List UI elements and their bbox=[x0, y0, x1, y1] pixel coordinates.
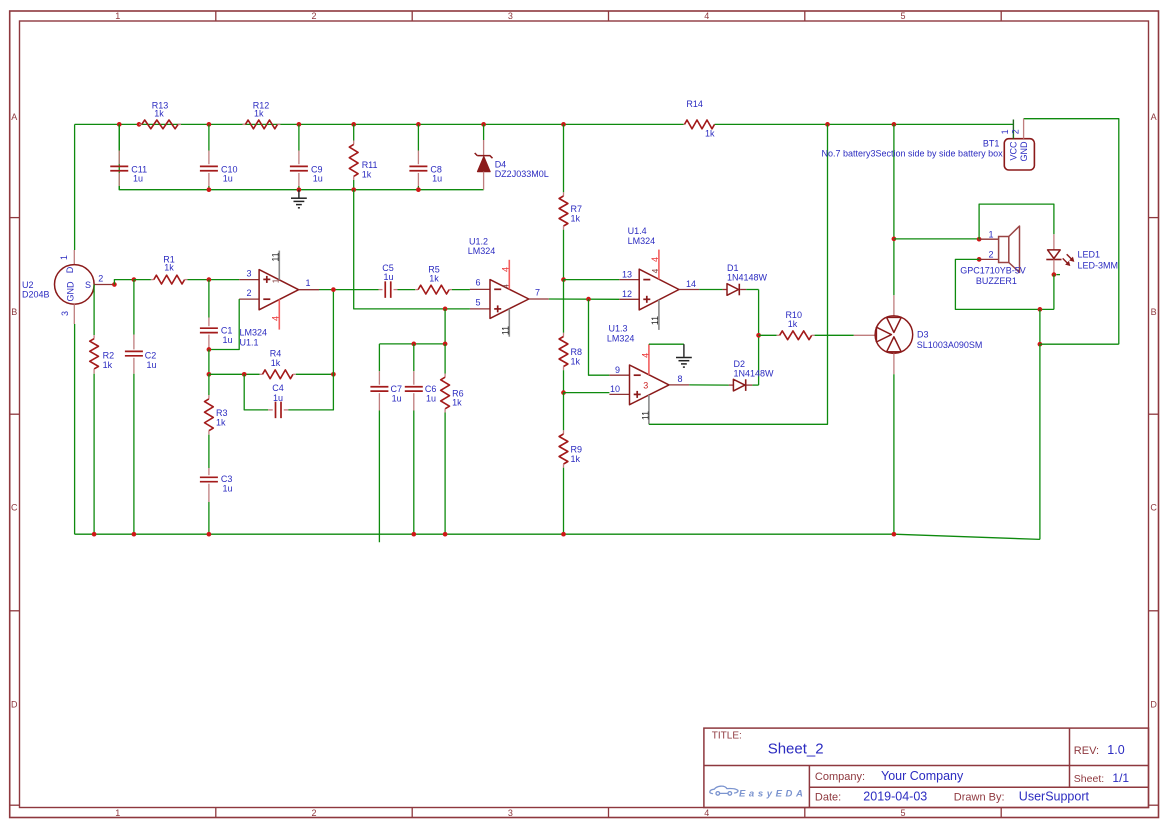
svg-text:LED-3MM: LED-3MM bbox=[1078, 260, 1119, 270]
svg-text:R8: R8 bbox=[571, 347, 583, 357]
svg-text:R2: R2 bbox=[103, 351, 115, 361]
capacitor C1 bbox=[208, 318, 210, 327]
resistor R10 bbox=[759, 334, 777, 336]
svg-text:13: 13 bbox=[622, 269, 632, 279]
svg-text:No.7 battery3Section side by s: No.7 battery3Section side by side batter… bbox=[821, 149, 1003, 159]
svg-text:D1: D1 bbox=[727, 263, 739, 273]
svg-text:6: 6 bbox=[475, 278, 480, 288]
ground symbol near U1.3 bbox=[683, 344, 685, 357]
LED LED1 LED-3MM bbox=[1053, 234, 1055, 250]
svg-text:BT1: BT1 bbox=[983, 139, 1000, 149]
wire C5 to R5 bbox=[398, 289, 416, 291]
wire R6 to bottom rail bbox=[444, 413, 446, 535]
svg-text:2: 2 bbox=[311, 808, 316, 818]
svg-text:2: 2 bbox=[311, 11, 316, 21]
svg-text:11: 11 bbox=[650, 316, 660, 325]
svg-text:1N4148W: 1N4148W bbox=[727, 273, 768, 283]
svg-text:5: 5 bbox=[475, 297, 480, 307]
capacitor C10 bbox=[208, 124, 210, 150]
wire R10 to D3 bbox=[815, 334, 854, 336]
wire D1 to common node column bbox=[746, 289, 758, 291]
svg-text:C4: C4 bbox=[272, 383, 284, 393]
power pin 11 of U1.3 bbox=[648, 395, 650, 424]
diode D2 1N4148W bbox=[729, 384, 734, 386]
node junction return column top bbox=[1038, 307, 1043, 312]
LED light arrows bbox=[1067, 254, 1073, 260]
resistor R12 bbox=[243, 123, 246, 125]
svg-text:1: 1 bbox=[272, 278, 281, 283]
svg-text:C: C bbox=[11, 503, 18, 513]
top border column ticks bbox=[215, 11, 217, 21]
wire R1 to op-amp U1.1 pin 3 bbox=[188, 279, 240, 281]
node junction C1 bottom bbox=[207, 347, 212, 352]
wire buzzer pin1 loop top bbox=[979, 204, 1054, 239]
node junction C4 branch bbox=[242, 372, 247, 377]
svg-text:LED1: LED1 bbox=[1078, 249, 1101, 259]
wire top VCC rail left segment bbox=[75, 123, 684, 125]
diode D1 1N4148W bbox=[723, 289, 727, 291]
svg-text:GND: GND bbox=[1019, 141, 1029, 162]
left border row ticks bbox=[10, 217, 20, 219]
op-amp U1.2 LM324 bbox=[470, 288, 490, 290]
svg-text:TITLE:: TITLE: bbox=[712, 731, 742, 742]
capacitor C3 bbox=[208, 468, 210, 475]
wire R8 to pin10 node bbox=[563, 370, 565, 392]
node junction dots on sub rail bbox=[207, 187, 212, 192]
svg-text:1k: 1k bbox=[705, 129, 715, 139]
svg-text:1u: 1u bbox=[273, 393, 283, 403]
EasyEDA logo bbox=[710, 786, 738, 795]
svg-text:C6: C6 bbox=[425, 384, 437, 394]
wire pin10 row bbox=[564, 392, 610, 394]
node junction LED cathode bbox=[1052, 272, 1057, 277]
wire mic pin2 jog to R1 row bbox=[114, 280, 133, 285]
svg-text:1k: 1k bbox=[164, 263, 174, 273]
title block dividers bbox=[704, 765, 1149, 767]
svg-text:SL1003A090SM: SL1003A090SM bbox=[917, 340, 983, 350]
node junction R4 right bbox=[331, 372, 336, 377]
svg-text:12: 12 bbox=[622, 289, 632, 299]
svg-text:Date:: Date: bbox=[815, 792, 841, 804]
wire U1.3 pin4 to ground bbox=[649, 343, 684, 345]
svg-text:U1.1: U1.1 bbox=[240, 338, 259, 348]
wire C1 bottom to R4 row bbox=[208, 350, 210, 375]
node junction buzzer pin2 bbox=[977, 257, 982, 262]
svg-text:4: 4 bbox=[501, 267, 511, 272]
wire VCC rail down to D3 top bbox=[893, 124, 895, 295]
svg-text:1k: 1k bbox=[571, 357, 581, 367]
zener diode D4 bbox=[483, 124, 485, 140]
svg-text:1: 1 bbox=[59, 255, 69, 260]
wire U1.3 pin11 to right vertical bbox=[649, 124, 828, 424]
resistor R6 bbox=[444, 344, 446, 374]
svg-text:UserSupport: UserSupport bbox=[1019, 790, 1090, 804]
wire U1.1 output row bbox=[319, 289, 379, 291]
svg-text:DZ2J033M0L: DZ2J033M0L bbox=[495, 169, 549, 179]
svg-text:R9: R9 bbox=[571, 445, 583, 455]
power pin 4 of U1.3 bbox=[648, 344, 650, 375]
svg-text:11: 11 bbox=[501, 326, 511, 335]
pin 2 lead of U2 bbox=[94, 284, 114, 286]
svg-text:1: 1 bbox=[115, 11, 120, 21]
svg-text:GND: GND bbox=[66, 281, 76, 302]
wire C4 loop bbox=[244, 374, 268, 410]
svg-text:D4: D4 bbox=[495, 160, 507, 170]
wire D3 bottom to bottom rail bbox=[893, 374, 895, 534]
svg-text:4: 4 bbox=[640, 353, 650, 358]
wire C3 to bottom rail bbox=[208, 502, 210, 534]
op-amp U1.3 LM324 bbox=[609, 374, 629, 376]
resistor R13 bbox=[139, 123, 142, 125]
svg-text:R4: R4 bbox=[270, 349, 282, 359]
svg-text:Drawn By:: Drawn By: bbox=[954, 792, 1005, 804]
svg-text:Sheet:: Sheet: bbox=[1074, 773, 1104, 785]
svg-text:1k: 1k bbox=[571, 454, 581, 464]
svg-text:1/1: 1/1 bbox=[1112, 771, 1129, 785]
svg-text:3: 3 bbox=[508, 11, 513, 21]
svg-text:2019-04-03: 2019-04-03 bbox=[863, 790, 927, 804]
svg-text:VCC: VCC bbox=[1009, 141, 1019, 161]
wire R7 to pin13 node bbox=[563, 230, 565, 280]
wire branch down to U1.3 pin 9 bbox=[589, 299, 610, 375]
svg-text:1u: 1u bbox=[383, 272, 393, 282]
wire pin13 row bbox=[564, 279, 620, 281]
svg-text:1u: 1u bbox=[392, 394, 402, 404]
svg-text:1u: 1u bbox=[432, 173, 442, 183]
svg-text:EasyEDA: EasyEDA bbox=[739, 788, 806, 799]
svg-text:2: 2 bbox=[246, 288, 251, 298]
wire U1.2 output to U1.4 pin12 bbox=[549, 298, 620, 300]
svg-text:1k: 1k bbox=[452, 397, 462, 407]
svg-text:5: 5 bbox=[900, 11, 905, 21]
wire D2 to common node column bbox=[752, 384, 758, 386]
svg-text:C: C bbox=[1150, 503, 1157, 513]
pin lead into D3 left bbox=[854, 334, 875, 336]
svg-text:1k: 1k bbox=[103, 360, 113, 370]
wire R5 to U1.2 pin 6 bbox=[452, 289, 470, 291]
resistor R2 bbox=[93, 335, 95, 339]
power pin 11 of U1.1 bbox=[278, 251, 280, 280]
capacitor C7 bbox=[378, 344, 380, 371]
wire left vertical from VCC rail to mic pin 1 bbox=[74, 124, 76, 250]
node junction R1 right / C1 top bbox=[207, 277, 212, 282]
capacitor C6 bbox=[413, 344, 415, 371]
svg-text:B: B bbox=[11, 307, 17, 317]
wire from pin2 down to R2 bbox=[93, 285, 95, 336]
ground symbol under C9 bbox=[298, 190, 300, 198]
svg-text:BUZZER1: BUZZER1 bbox=[976, 276, 1017, 286]
power pin 4 of U1.1 bbox=[278, 299, 280, 329]
svg-text:Company:: Company: bbox=[815, 771, 865, 783]
wire R9 to bottom rail bbox=[563, 468, 565, 535]
svg-text:2: 2 bbox=[1010, 129, 1020, 134]
op-amp U1.4 LM324 bbox=[619, 279, 639, 281]
microphone U2 D204B bbox=[73, 250, 75, 265]
wire U1.1 pin2 feedback to C1 bottom bbox=[209, 299, 239, 349]
svg-text:S: S bbox=[85, 280, 91, 290]
svg-text:2: 2 bbox=[988, 250, 993, 260]
svg-text:LM324: LM324 bbox=[468, 246, 496, 256]
svg-text:4: 4 bbox=[704, 11, 709, 21]
node junction buzzer pin1 bbox=[977, 237, 982, 242]
capacitor C4 bbox=[268, 409, 273, 411]
wire R4 right to output column bbox=[296, 373, 334, 375]
svg-text:11: 11 bbox=[271, 252, 281, 261]
svg-text:REV:: REV: bbox=[1074, 745, 1099, 757]
right border row ticks bbox=[1149, 217, 1159, 219]
svg-text:GPC1710YB-5V: GPC1710YB-5V bbox=[960, 266, 1026, 276]
power pin 4 of U1.4 bbox=[658, 250, 660, 280]
wire C2 column bbox=[133, 280, 135, 335]
svg-text:7: 7 bbox=[535, 287, 540, 297]
svg-text:1k: 1k bbox=[271, 358, 281, 368]
node junction dots on VCC rail bbox=[117, 122, 122, 127]
svg-text:1: 1 bbox=[988, 229, 993, 239]
svg-text:1k: 1k bbox=[429, 273, 439, 283]
svg-text:D204B: D204B bbox=[22, 290, 50, 300]
wire R3 to C3 bbox=[208, 435, 210, 468]
resistor R11 bbox=[353, 124, 355, 140]
node junction R10 left bbox=[756, 333, 761, 338]
svg-text:Sheet_2: Sheet_2 bbox=[768, 741, 824, 758]
svg-text:5: 5 bbox=[900, 808, 905, 818]
power pin 4 of U1.2 bbox=[508, 260, 510, 290]
capacitor C2 bbox=[133, 335, 135, 350]
wire sub ground rail bbox=[119, 124, 483, 189]
svg-text:1u: 1u bbox=[147, 360, 157, 370]
node junction out7 branch bbox=[586, 297, 591, 302]
svg-text:4: 4 bbox=[651, 268, 660, 273]
svg-text:2: 2 bbox=[98, 273, 103, 283]
svg-text:U1.4: U1.4 bbox=[628, 226, 647, 236]
svg-text:R7: R7 bbox=[571, 204, 583, 214]
wire LED cathode down bbox=[1053, 275, 1055, 310]
capacitor C11 bbox=[118, 124, 120, 150]
svg-text:14: 14 bbox=[686, 279, 696, 289]
wire C6 R6 top branch bbox=[379, 309, 445, 344]
svg-text:1k: 1k bbox=[788, 319, 798, 329]
node junction R7/R8/pin13 bbox=[561, 277, 566, 282]
svg-text:1k: 1k bbox=[362, 170, 372, 180]
svg-text:D: D bbox=[65, 266, 75, 273]
wire bottom ground rail bbox=[75, 533, 894, 535]
wire C6 to bottom rail bbox=[413, 411, 415, 535]
svg-text:1u: 1u bbox=[426, 394, 436, 404]
svg-text:A: A bbox=[1151, 112, 1157, 122]
node junction R6 top bbox=[443, 342, 448, 347]
svg-text:LM324: LM324 bbox=[240, 328, 268, 338]
svg-text:LM324: LM324 bbox=[628, 236, 656, 246]
node junction pin5 row bbox=[443, 307, 448, 312]
svg-text:4: 4 bbox=[704, 808, 709, 818]
svg-text:1u: 1u bbox=[133, 173, 143, 183]
resistor R1 bbox=[134, 279, 151, 281]
svg-text:U1.3: U1.3 bbox=[609, 324, 628, 334]
resistor R5 bbox=[415, 289, 418, 291]
svg-text:1.0: 1.0 bbox=[1107, 743, 1124, 757]
wire BT1 pin2 net to right vertical bbox=[1024, 119, 1119, 345]
node junction dots on bottom rail bbox=[92, 532, 97, 537]
node junction R4 row left bbox=[207, 372, 212, 377]
resistor R8 bbox=[563, 280, 565, 333]
power pin 11 of U1.2 bbox=[508, 309, 510, 337]
component D3 SL1003A090SM bbox=[893, 295, 895, 316]
wire output column U1.1 bbox=[332, 290, 334, 375]
wire U1.1 pin3 column down to C1 bbox=[208, 280, 210, 318]
svg-text:3: 3 bbox=[60, 311, 70, 316]
svg-text:D: D bbox=[11, 700, 18, 710]
battery BT1 bbox=[1004, 139, 1034, 170]
svg-text:4: 4 bbox=[502, 284, 511, 289]
svg-text:U2: U2 bbox=[22, 280, 34, 290]
capacitor C8 bbox=[417, 124, 419, 150]
node junction buzzer branch bbox=[892, 237, 897, 242]
wire U1.4 output to D1 bbox=[699, 289, 722, 291]
svg-text:1k: 1k bbox=[254, 108, 264, 118]
output pin 7 lead of U1.2 bbox=[529, 298, 549, 300]
svg-text:1: 1 bbox=[305, 278, 310, 288]
svg-text:R14: R14 bbox=[686, 99, 703, 109]
capacitor C5 bbox=[379, 289, 383, 291]
wire D1/D2 common vertical bbox=[758, 290, 760, 386]
output pin 14 lead of U1.4 bbox=[679, 289, 699, 291]
resistor R7 bbox=[563, 124, 565, 192]
resistor R4 bbox=[260, 373, 263, 375]
svg-text:1N4148W: 1N4148W bbox=[734, 369, 775, 379]
node junction C6 top bbox=[411, 342, 416, 347]
wire buzzer pin2 loop bbox=[955, 259, 1054, 309]
wire R2 to bottom rail bbox=[93, 374, 95, 535]
svg-text:1k: 1k bbox=[571, 214, 581, 224]
svg-text:4: 4 bbox=[650, 257, 660, 262]
wire return column down bbox=[1039, 344, 1041, 539]
wire C4 right side up to R4 right bbox=[288, 374, 333, 410]
resistor R9 bbox=[563, 393, 565, 431]
op-amp U1.1 LM324 bbox=[239, 279, 259, 281]
svg-text:U1.2: U1.2 bbox=[469, 237, 488, 247]
svg-text:C7: C7 bbox=[391, 384, 403, 394]
buzzer BUZZER1 GPC1710YB-5V bbox=[979, 238, 999, 240]
node junction U1.1 output bbox=[331, 287, 336, 292]
svg-text:R11: R11 bbox=[362, 160, 378, 170]
title block outline bbox=[704, 728, 1149, 807]
wire BT1 GND net to return column bbox=[1040, 343, 1119, 345]
svg-text:3: 3 bbox=[246, 269, 251, 279]
svg-text:1u: 1u bbox=[313, 173, 323, 183]
svg-text:LM324: LM324 bbox=[607, 334, 635, 344]
wire C7 down crossing bottom rail bbox=[378, 411, 380, 543]
svg-text:1u: 1u bbox=[223, 335, 233, 345]
svg-text:1k: 1k bbox=[216, 417, 226, 427]
wire mic pin3 down to bottom rail bbox=[74, 324, 76, 534]
output pin 1 lead of U1.1 bbox=[299, 289, 319, 291]
svg-text:D: D bbox=[1150, 700, 1157, 710]
wire return column bbox=[1039, 309, 1041, 344]
node junction at mic pin 2 bbox=[112, 282, 117, 287]
svg-text:B: B bbox=[1151, 307, 1157, 317]
resistor R3 bbox=[208, 374, 210, 395]
wire D3 branch to buzzer pin1 bbox=[894, 238, 979, 240]
svg-text:3: 3 bbox=[508, 808, 513, 818]
svg-text:A: A bbox=[11, 112, 17, 122]
wire diagonal to bottom rail bbox=[894, 534, 1040, 539]
wire R11 column down to U1.2 pin 5 bbox=[354, 190, 470, 309]
svg-text:3: 3 bbox=[643, 380, 648, 390]
wire C2 to bottom rail bbox=[133, 374, 135, 535]
wire U1.3 output to D2 bbox=[689, 384, 729, 386]
node junction return column mid bbox=[1038, 342, 1043, 347]
wire R4 row bbox=[209, 373, 260, 375]
svg-text:11: 11 bbox=[640, 411, 650, 420]
svg-text:10: 10 bbox=[610, 384, 620, 394]
svg-text:8: 8 bbox=[677, 374, 682, 384]
svg-text:1k: 1k bbox=[154, 108, 164, 118]
svg-text:R3: R3 bbox=[216, 408, 228, 418]
capacitor C9 bbox=[298, 124, 300, 150]
svg-text:Your Company: Your Company bbox=[881, 769, 964, 783]
bottom border column ticks bbox=[215, 808, 217, 818]
svg-text:4: 4 bbox=[271, 316, 281, 321]
svg-text:1: 1 bbox=[115, 808, 120, 818]
node junction C2 branch bbox=[132, 277, 137, 282]
svg-text:1u: 1u bbox=[223, 483, 233, 493]
wire top VCC rail right segment bbox=[715, 123, 1014, 125]
svg-text:1: 1 bbox=[1000, 129, 1010, 134]
svg-text:1u: 1u bbox=[223, 173, 233, 183]
node junction R8/R9/pin10 bbox=[561, 390, 566, 395]
svg-text:D2: D2 bbox=[734, 359, 746, 369]
svg-text:D3: D3 bbox=[917, 330, 929, 340]
svg-text:9: 9 bbox=[615, 365, 620, 375]
power pin 11 of U1.4 bbox=[658, 300, 660, 330]
svg-text:C2: C2 bbox=[145, 351, 157, 361]
resistor R14 bbox=[684, 123, 685, 125]
output pin 8 lead of U1.3 bbox=[669, 384, 689, 386]
